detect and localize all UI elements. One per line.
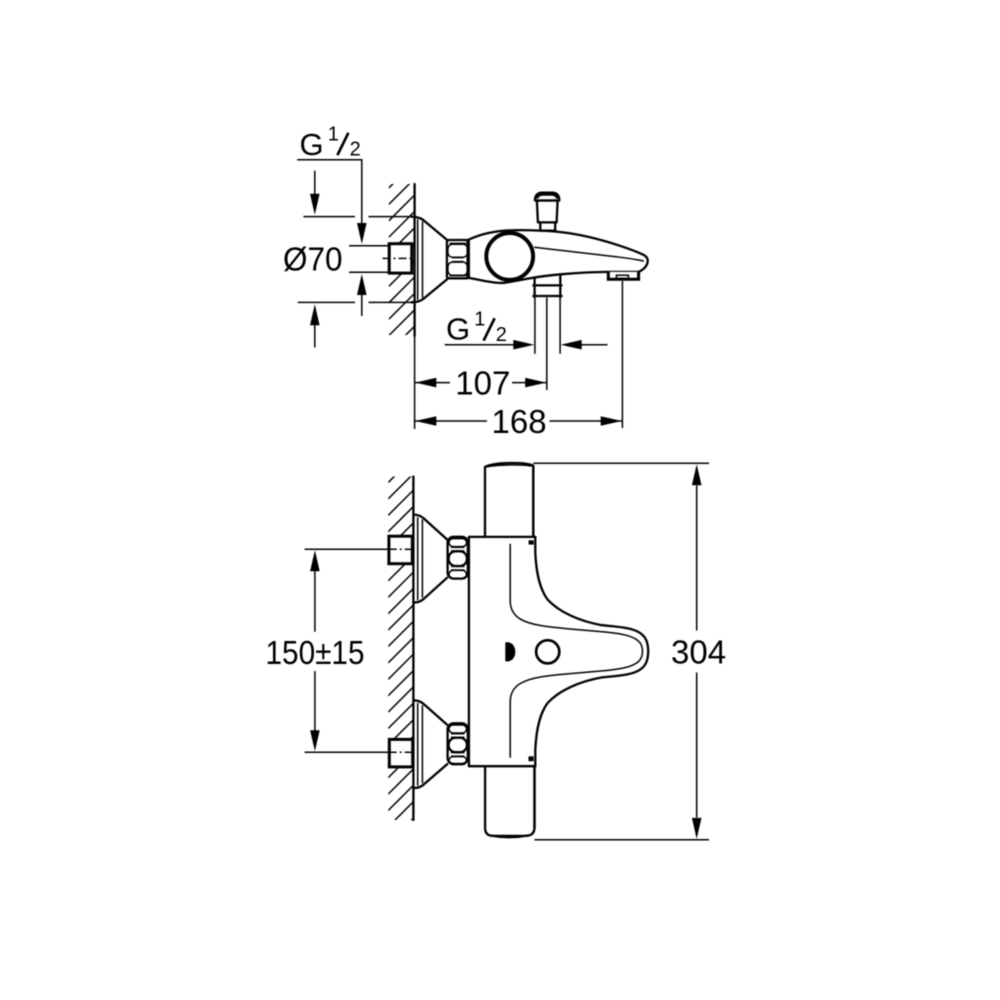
cone face ring lines <box>417 219 419 300</box>
inner contour line of wing <box>510 544 642 758</box>
top grip cylinder <box>485 463 533 536</box>
hex nut (top view) <box>447 240 469 278</box>
G 1/2 label bottom <box>446 309 507 347</box>
extension line from outlet down (168) <box>621 281 623 428</box>
economy button mark (black D) <box>505 642 515 661</box>
bottom escutcheon cone <box>414 700 448 788</box>
diverter knob on spout <box>535 193 559 231</box>
svg-text:150±15: 150±15 <box>266 634 365 671</box>
top escutcheon cone <box>414 515 447 603</box>
top hex nut (front view) <box>448 537 468 579</box>
shower outlet connector below body <box>533 276 561 297</box>
escutcheon cone (top view) <box>303 216 412 218</box>
G1/2 top dimension <box>297 160 362 224</box>
svg-text:Ø70: Ø70 <box>283 241 343 278</box>
thermostat dial (circle) <box>486 233 533 280</box>
block top and bottom bold edges <box>469 536 535 538</box>
svg-text:107: 107 <box>455 365 510 402</box>
wall hatching <box>388 457 413 859</box>
svg-text:304: 304 <box>671 634 726 671</box>
extension lines below connector <box>534 298 536 354</box>
G 1/2 label top <box>300 124 361 162</box>
bottom grip cylinder <box>485 766 534 837</box>
tap body (side view) <box>468 230 648 283</box>
svg-text:G: G <box>300 127 324 162</box>
inner contour line of spout <box>534 247 644 261</box>
wall face line <box>412 477 414 821</box>
temperature dial circle <box>536 640 559 663</box>
svg-text:2: 2 <box>496 324 507 346</box>
outlet (aerator) under spout tip <box>608 272 638 279</box>
svg-text:2: 2 <box>350 139 361 161</box>
nipple centerlines dashed <box>389 548 415 550</box>
nipple centerline (dashed) <box>383 257 416 259</box>
svg-text:1: 1 <box>328 124 339 146</box>
G1/2 bottom dimension <box>445 344 516 346</box>
thermostat body block with wing <box>469 537 648 766</box>
wall face extension line down to dims <box>414 336 416 429</box>
bottom hex nut (front view) <box>448 723 468 764</box>
wall hatching <box>389 162 415 385</box>
svg-text:1: 1 <box>474 309 485 331</box>
svg-text:168: 168 <box>492 403 547 440</box>
small black screw marks <box>529 540 534 544</box>
wall face line <box>413 184 415 336</box>
top union nipple square <box>389 536 412 564</box>
svg-text:G: G <box>446 311 470 346</box>
union nipple square (bold, in wall) <box>389 244 412 273</box>
bottom union nipple square <box>389 739 412 767</box>
